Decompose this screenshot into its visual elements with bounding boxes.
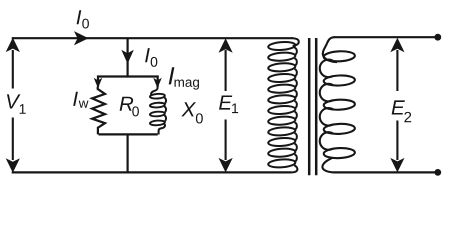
voltage arrow E2 (double-headed) <box>396 50 398 91</box>
transformer core (two lines) <box>309 38 316 175</box>
terminal dot bottom right <box>434 169 441 176</box>
arrowhead Iw branch <box>94 78 103 88</box>
label E1 <box>219 95 232 109</box>
label V1 <box>7 94 20 108</box>
wire: top rail secondary side <box>334 36 438 38</box>
terminal dot top right <box>434 34 441 41</box>
label Iw <box>73 92 78 106</box>
arrowhead Imag branch <box>153 78 162 88</box>
label R0 <box>120 97 134 111</box>
voltage arrow E1 (double-headed) <box>225 50 227 91</box>
arrowhead I0 on shunt feed <box>121 50 134 64</box>
parallel section bottom bar and stem <box>99 134 158 172</box>
wire: bottom rail secondary side <box>334 171 438 173</box>
shunt feed wire from top rail <box>126 38 128 76</box>
wire: top rail primary side <box>12 37 293 39</box>
label Imag <box>169 67 175 84</box>
label I0 (shunt feed) <box>145 48 150 62</box>
inductor X0 coil <box>151 85 157 95</box>
transformer secondary winding <box>323 37 337 62</box>
label E2 <box>392 100 405 114</box>
label I0 (top rail) <box>77 10 82 24</box>
transformer primary winding <box>293 38 299 46</box>
resistor R0 (zigzag) <box>92 87 105 134</box>
wire: bottom rail primary side <box>12 171 291 173</box>
voltage arrow V1 (left, double-headed) <box>12 50 14 89</box>
arrowhead I0 on top rail <box>74 31 89 45</box>
parallel section top bar <box>98 77 158 88</box>
label X0 <box>181 102 196 116</box>
